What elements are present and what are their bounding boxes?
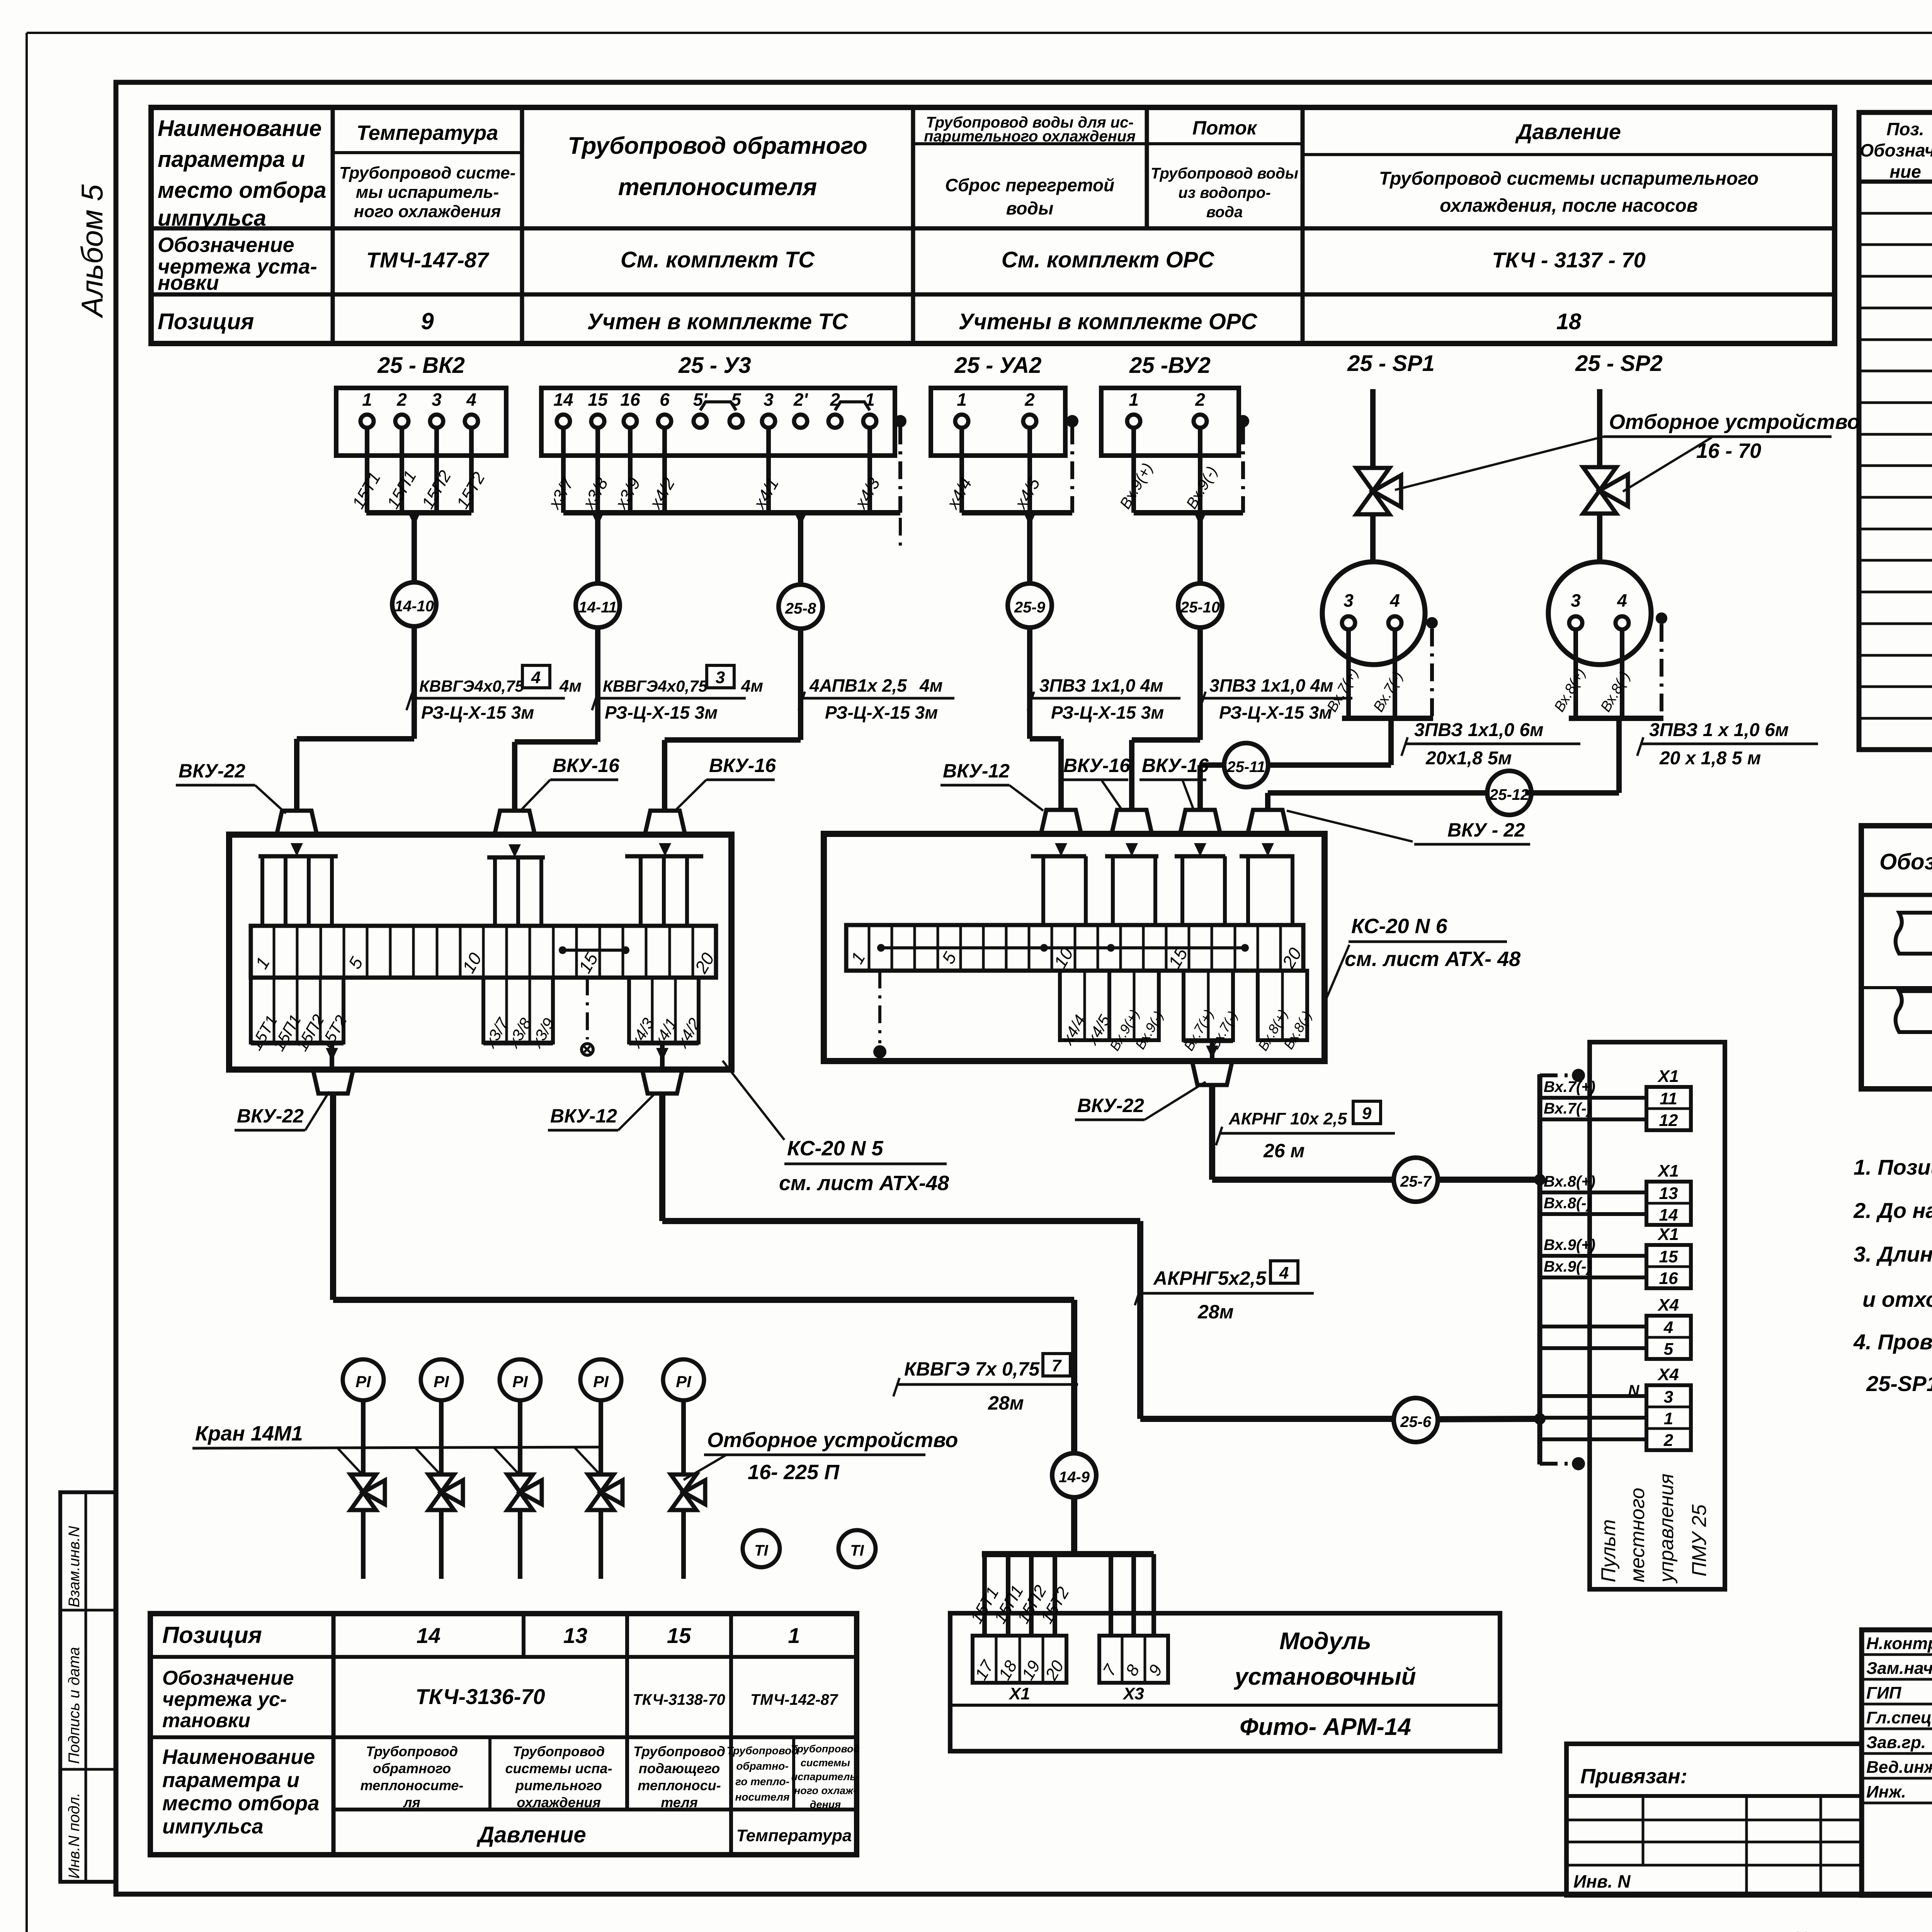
svg-text:системы испа-: системы испа-: [505, 1760, 612, 1776]
svg-text:охлаждения: охлаждения: [517, 1794, 600, 1810]
svg-text:9: 9: [1362, 1104, 1372, 1123]
instrument circle 25-12: [1487, 771, 1531, 815]
svg-text:КВВГЭ 7х 0,75: КВВГЭ 7х 0,75: [904, 1358, 1040, 1380]
KC-20 N6 top glands: [1041, 810, 1081, 834]
svg-text:ВКУ-22: ВКУ-22: [237, 1105, 304, 1127]
svg-text:4м: 4м: [741, 677, 763, 696]
KC-20 N5 terminal strip: [251, 926, 716, 978]
module X3 terminal cells: [1099, 1636, 1168, 1683]
KC-20 N6 bottom label cells х4/4 х4/5: [1060, 971, 1109, 1040]
svg-text:26 м: 26 м: [1263, 1140, 1305, 1162]
svg-text:16: 16: [1659, 1269, 1678, 1288]
instrument circle 14-11: [576, 583, 620, 628]
svg-text:ВКУ-22: ВКУ-22: [179, 760, 245, 782]
svg-text:7: 7: [1052, 1356, 1062, 1375]
module feeder bus: [982, 1551, 1154, 1557]
svg-text:место отбора: место отбора: [162, 1792, 319, 1815]
svg-text:чертежа ус-: чертежа ус-: [162, 1688, 287, 1711]
KC-20 N6 bottom label cells Вх.8: [1258, 971, 1307, 1040]
cable label АКРНГ5х2,5 4 28м: [1138, 1292, 1314, 1295]
cable label 3ПВЗ 1х1,0 4м (right): [1202, 697, 1352, 700]
svg-text:18: 18: [1556, 309, 1582, 334]
svg-text:теплоноси-: теплоноси-: [638, 1777, 721, 1793]
svg-text:2: 2: [1195, 389, 1205, 410]
terminal box 25-УА2 earth dot: [1066, 415, 1078, 427]
instrument circle 25-9: [1008, 583, 1052, 628]
svg-text:3ПВЗ 1 х 1,0 6м: 3ПВЗ 1 х 1,0 6м: [1649, 720, 1789, 740]
svg-text:из водопро-: из водопро-: [1178, 184, 1270, 201]
svg-text:ТМЧ-147-87: ТМЧ-147-87: [366, 248, 490, 272]
svg-text:обратно-: обратно-: [736, 1760, 788, 1772]
svg-text:см. лист АТХ-48: см. лист АТХ-48: [779, 1172, 949, 1195]
svg-text:Зам.нач.: Зам.нач.: [1866, 1659, 1932, 1678]
module X1 terminal cells: [973, 1636, 1066, 1683]
svg-text:ля: ля: [403, 1794, 420, 1810]
PMU earth bus: [1537, 1074, 1543, 1464]
svg-text:PI: PI: [434, 1372, 449, 1391]
svg-text:Кран 14М1: Кран 14М1: [195, 1422, 303, 1445]
svg-text:Поток: Поток: [1192, 117, 1258, 139]
wire run SP1 to gland via 25-11: [1268, 762, 1391, 768]
svg-text:параметра и: параметра и: [158, 147, 305, 172]
svg-text:4м: 4м: [919, 675, 943, 696]
KC-20 N6 internal top bars: [1031, 854, 1086, 859]
cable run 25-8 to KC-20 N5: [798, 629, 803, 740]
TI gauge circles: [743, 1530, 780, 1567]
svg-text:тановки: тановки: [162, 1709, 250, 1732]
cable run 14-11 to KC-20 N5: [595, 628, 600, 742]
module wires to X3: [1109, 1554, 1113, 1636]
terminal box 25-ВУ2 earth dot: [1237, 415, 1249, 427]
KC-20 N6 strip bus with taps: [881, 946, 1245, 949]
cable label 4АПВ1х2,5 4м: [802, 697, 954, 700]
svg-text:Привязан:: Привязан:: [1580, 1765, 1687, 1788]
KC-20 N5 bottom glands: [313, 1070, 353, 1094]
cable run 25-10 to KC-20 N6: [1197, 628, 1203, 740]
svg-text:Обозначение: Обозначение: [158, 233, 294, 257]
svg-text:2. До нарезки кабеля длины: 2. До нарезки кабеля длины трасс уточнит…: [1853, 1198, 1932, 1223]
svg-text:PI: PI: [593, 1372, 609, 1391]
svg-text:теплоносителя: теплоносителя: [618, 174, 817, 201]
svg-text:3: 3: [764, 389, 774, 410]
svg-text:обратного: обратного: [373, 1760, 451, 1776]
binding box Привязан: [1566, 1744, 1862, 1895]
svg-text:13: 13: [1659, 1184, 1678, 1203]
svg-text:см. лист АТХ- 48: см. лист АТХ- 48: [1345, 947, 1520, 971]
svg-text:Вх.7(+): Вх.7(+): [1544, 1078, 1595, 1095]
svg-text:2: 2: [1024, 389, 1035, 410]
svg-text:20х1,8 5м: 20х1,8 5м: [1425, 748, 1512, 769]
svg-text:импульса: импульса: [162, 1815, 264, 1838]
wire to instrument 25-9: [1024, 513, 1036, 526]
cable run 25-9 to KC-20 N6: [1027, 628, 1032, 739]
svg-text:16 - 70: 16 - 70: [1696, 439, 1761, 463]
wire to instrument 25-8: [794, 513, 807, 526]
svg-text:парительного охлаждения: парительного охлаждения: [924, 128, 1136, 145]
selector valve 25-SP1: [1356, 468, 1389, 514]
svg-text:PI: PI: [355, 1372, 371, 1391]
svg-text:Копировал Кухтинова: Копировал Кухтинова: [1793, 1927, 1932, 1932]
svg-text:установочный: установочный: [1234, 1663, 1416, 1690]
svg-text:28м: 28м: [1197, 1301, 1234, 1323]
svg-text:Вх.9(+): Вх.9(+): [1544, 1236, 1595, 1253]
KC-20 N6 earth dash-dot: [878, 971, 881, 1043]
instrument circle 14-10: [392, 582, 436, 626]
svg-text:Трубопровод систе-: Трубопровод систе-: [339, 163, 516, 182]
svg-text:25 - SP1: 25 - SP1: [1347, 351, 1435, 376]
svg-text:4: 4: [466, 389, 476, 410]
wires 25-УА2 to bus: [959, 428, 964, 513]
svg-text:Трубопровод системы испарит: Трубопровод системы испарительного: [1379, 168, 1759, 189]
svg-text:5: 5: [1664, 1340, 1673, 1359]
svg-text:5': 5': [693, 389, 708, 410]
svg-text:25 - У3: 25 - У3: [678, 353, 751, 378]
terminal box 25-У3: [541, 388, 895, 456]
svg-text:охлаждения, после насосов: охлаждения, после насосов: [1440, 196, 1698, 216]
instrument circle 14-9: [1052, 1453, 1096, 1497]
svg-text:12: 12: [1659, 1111, 1678, 1130]
jumper 5'-5: [700, 402, 736, 410]
KC-20 N6 bottom label cells Вх.9: [1109, 971, 1159, 1040]
callout КС-20 N5: [723, 1061, 784, 1140]
wires 25-У3 to bus: [561, 428, 566, 513]
KC-20 N6 terminal strip: [846, 925, 1303, 971]
svg-text:28м: 28м: [988, 1392, 1024, 1414]
svg-text:РЗ-Ц-Х-15 3м: РЗ-Ц-Х-15 3м: [1219, 702, 1332, 723]
svg-text:Трубопровод: Трубопровод: [791, 1743, 860, 1755]
svg-text:Фито- АРМ-14: Фито- АРМ-14: [1240, 1714, 1411, 1740]
svg-text:РЗ-Ц-Х-15 3м: РЗ-Ц-Х-15 3м: [605, 702, 718, 723]
mounting module box Фито-АРМ-14: [950, 1613, 1500, 1751]
PI gauge circles: [343, 1359, 384, 1400]
svg-text:ВКУ-12: ВКУ-12: [550, 1105, 617, 1127]
svg-text:25 -ВУ2: 25 -ВУ2: [1129, 353, 1211, 378]
legend table: [1861, 826, 1932, 1089]
svg-text:ВКУ-16: ВКУ-16: [1063, 755, 1131, 776]
KC-20 N5 strip jumper 14-16: [563, 949, 626, 952]
svg-text:дения: дения: [810, 1799, 841, 1810]
title block outline: [1862, 1630, 1932, 1895]
svg-text:Пульт: Пульт: [1597, 1519, 1620, 1582]
KC-20 N5 earth dash-dot to ground: [586, 978, 589, 1039]
svg-text:14-10: 14-10: [395, 598, 434, 615]
svg-text:Взам.инв.N: Взам.инв.N: [66, 1526, 83, 1607]
svg-text:Гл.спец.: Гл.спец.: [1866, 1708, 1932, 1727]
svg-text:Х1: Х1: [1657, 1162, 1679, 1180]
svg-text:15: 15: [667, 1623, 691, 1648]
svg-text:14-11: 14-11: [578, 599, 617, 616]
svg-text:ТКЧ - 3137 - 70: ТКЧ - 3137 - 70: [1492, 248, 1645, 272]
svg-text:25 - SP2: 25 - SP2: [1575, 351, 1663, 376]
svg-text:Трубопровод: Трубопровод: [366, 1743, 458, 1759]
svg-text:ВКУ-16: ВКУ-16: [553, 755, 620, 776]
svg-text:15: 15: [1659, 1247, 1678, 1266]
svg-text:Обозначе-: Обозначе-: [1860, 140, 1932, 160]
svg-text:14: 14: [417, 1623, 440, 1648]
cable label 3ПВЗ 1х1,0 6м (SP2): [1640, 743, 1818, 745]
svg-text:КВВГЭ4х0,75: КВВГЭ4х0,75: [603, 677, 708, 695]
svg-text:КС-20 N 6: КС-20 N 6: [1351, 915, 1448, 938]
svg-text:Инв. N: Инв. N: [1573, 1871, 1631, 1891]
svg-text:1: 1: [788, 1623, 800, 1648]
svg-text:16: 16: [620, 389, 640, 410]
junction box КС-20 N6: [824, 834, 1325, 1061]
legend symbol 2: grounding conductor: [1896, 991, 1932, 1032]
svg-text:теплоносите-: теплоносите-: [361, 1777, 464, 1793]
svg-text:3: 3: [716, 668, 725, 687]
svg-text:Обозначение: Обозначение: [162, 1667, 294, 1689]
svg-text:25-10: 25-10: [1180, 599, 1220, 616]
local control panel ПМУ 25 box: [1590, 1042, 1725, 1589]
svg-text:Инж.: Инж.: [1866, 1782, 1906, 1801]
wire run SP2 to gland via 25-12: [1525, 790, 1619, 796]
svg-text:11: 11: [1660, 1089, 1677, 1108]
svg-text:АКРНГ5х2,5: АКРНГ5х2,5: [1153, 1267, 1267, 1289]
svg-text:25-9: 25-9: [1014, 599, 1046, 616]
instrument circle 25-6: [1394, 1398, 1438, 1442]
svg-text:25-11: 25-11: [1226, 759, 1265, 776]
svg-text:1: 1: [1664, 1409, 1673, 1428]
wire to instrument 14-10: [408, 513, 420, 526]
svg-text:См. комплект ОРС: См. комплект ОРС: [1002, 247, 1215, 272]
svg-text:новки: новки: [158, 271, 219, 294]
parameters table: [151, 107, 1835, 344]
cable run KC-20 N6 ВКУ-22 to 25-7: [1209, 1086, 1215, 1180]
svg-text:Модуль: Модуль: [1279, 1628, 1371, 1655]
terminal box 25-УА2: [931, 388, 1065, 456]
svg-text:3: 3: [1344, 590, 1354, 611]
svg-text:Инв.N подл.: Инв.N подл.: [66, 1793, 83, 1879]
svg-text:рительного: рительного: [515, 1777, 602, 1793]
svg-text:РЗ-Ц-Х-15 3м: РЗ-Ц-Х-15 3м: [1051, 702, 1164, 723]
svg-text:подающего: подающего: [639, 1760, 720, 1776]
legend symbol 1: cable core used as protective conductor: [1896, 913, 1932, 954]
cable label КВВГЭ4х0,75 3 4м: [595, 697, 746, 700]
svg-text:1: 1: [1129, 389, 1139, 410]
svg-text:14: 14: [1659, 1206, 1678, 1225]
svg-text:6: 6: [660, 389, 670, 410]
svg-text:ВКУ-16: ВКУ-16: [1142, 755, 1209, 776]
svg-text:4м: 4м: [559, 677, 582, 696]
svg-text:PI: PI: [512, 1372, 528, 1391]
svg-text:испаритель-: испаритель-: [791, 1771, 860, 1782]
wire to instrument 14-11: [592, 513, 604, 526]
svg-text:ного охлаж-: ного охлаж-: [794, 1785, 857, 1796]
svg-text:РЗ-Ц-Х-15 3м: РЗ-Ц-Х-15 3м: [421, 702, 534, 723]
wires 25-ВУ2 to bus: [1131, 428, 1136, 513]
svg-text:параметра и: параметра и: [162, 1769, 299, 1792]
svg-text:4: 4: [1663, 1318, 1673, 1337]
KC-20 N5 internal top bars: [259, 854, 338, 859]
wire 25-SP2 down to 25-12: [1616, 718, 1622, 793]
svg-text:1: 1: [957, 389, 967, 410]
svg-text:25-8: 25-8: [785, 600, 816, 617]
KC-20 N5 bottom label cells х3/7..х3/9: [483, 978, 553, 1043]
svg-text:Сброс перегретой: Сброс перегретой: [945, 175, 1114, 195]
junction box КС-20 N5: [229, 835, 731, 1070]
svg-text:Отборное устройство: Отборное устройство: [707, 1429, 958, 1452]
wire 25-SP1 down to 25-11: [1388, 718, 1394, 765]
svg-text:3: 3: [1571, 590, 1581, 611]
svg-text:Х1: Х1: [1008, 1684, 1030, 1703]
svg-text:15: 15: [588, 389, 608, 410]
svg-text:Х4: Х4: [1657, 1365, 1679, 1384]
manometer 25-SP2 body: [1548, 562, 1651, 665]
svg-text:Х3: Х3: [1122, 1684, 1144, 1703]
svg-text:25-12: 25-12: [1489, 786, 1529, 803]
svg-text:20 х 1,8 5 м: 20 х 1,8 5 м: [1659, 748, 1761, 769]
svg-text:25-6: 25-6: [1400, 1413, 1432, 1430]
impulse pipe 25-SP2: [1597, 389, 1602, 467]
svg-text:Вх.8(-): Вх.8(-): [1544, 1195, 1592, 1212]
svg-text:16- 225 П: 16- 225 П: [748, 1461, 840, 1484]
svg-text:КВВГЭ4х0,75: КВВГЭ4х0,75: [419, 677, 524, 695]
wires 25-ВК2 to bus: [365, 428, 369, 513]
instrument circle 25-8: [779, 585, 823, 629]
KC-20 N5 bottom label cells 15Т1..15Т2: [251, 978, 344, 1043]
cable run 14-10 to KC-20 N5: [412, 626, 417, 739]
svg-text:Позиция: Позиция: [162, 1622, 262, 1648]
cable run KC-20 N5 ВКУ-12 to 25-6: [659, 1094, 665, 1221]
svg-text:ВКУ-16: ВКУ-16: [709, 755, 776, 776]
cable label 3ПВЗ 1х1,0 6м (SP1): [1405, 743, 1580, 745]
PI gauge stems: [361, 1400, 366, 1475]
svg-text:Трубопровод обратного: Трубопровод обратного: [568, 133, 867, 159]
svg-text:См. комплект ТС: См. комплект ТС: [621, 247, 815, 272]
svg-text:Подпись и дата: Подпись и дата: [66, 1647, 83, 1764]
callout КС-20 N6: [1325, 945, 1349, 1003]
svg-text:Зав.гр.: Зав.гр.: [1866, 1733, 1926, 1752]
svg-text:Обозначение: Обозначение: [1879, 849, 1932, 874]
svg-text:Вх.7(-): Вх.7(-): [1544, 1100, 1592, 1117]
svg-text:Наименование: Наименование: [162, 1745, 315, 1769]
svg-text:ВКУ-12: ВКУ-12: [943, 760, 1010, 782]
svg-text:25 - ВК2: 25 - ВК2: [377, 353, 465, 378]
svg-text:Х4: Х4: [1657, 1296, 1679, 1315]
terminal box 25-У3 earth dot: [894, 415, 906, 427]
svg-text:КС-20 N 5: КС-20 N 5: [787, 1137, 884, 1160]
svg-text:Трубопровод: Трубопровод: [726, 1745, 798, 1757]
svg-text:1. Позиции приборов и аппара: 1. Позиции приборов и аппаратуры указаны…: [1854, 1155, 1932, 1179]
svg-text:4. Провода при выходе из: 4. Провода при выходе из металлических т…: [1853, 1330, 1932, 1354]
svg-text:Давление: Давление: [476, 1822, 586, 1847]
stamp column boxes: [60, 1492, 116, 1882]
KC-20 N6 right gland label ВКУ-22: [1287, 811, 1413, 842]
svg-text:14: 14: [553, 389, 573, 410]
manometer 25-SP1 body: [1322, 562, 1425, 665]
svg-text:ВКУ - 22: ВКУ - 22: [1447, 819, 1525, 841]
svg-text:ВКУ-22: ВКУ-22: [1077, 1095, 1144, 1116]
svg-text:1: 1: [362, 389, 372, 410]
svg-text:Вх.9(-): Вх.9(-): [1544, 1258, 1592, 1275]
svg-text:Температура: Температура: [736, 1826, 852, 1845]
instrument circle 25-11: [1224, 743, 1268, 787]
manual valves Кран 14М1: [350, 1475, 376, 1510]
svg-text:РЗ-Ц-Х-15 3м: РЗ-Ц-Х-15 3м: [825, 702, 938, 723]
svg-text:3ПВЗ 1х1,0 4м: 3ПВЗ 1х1,0 4м: [1039, 675, 1163, 696]
svg-text:Вх.8(+): Вх.8(+): [1544, 1173, 1595, 1190]
svg-text:14-9: 14-9: [1059, 1469, 1090, 1486]
svg-text:2: 2: [396, 389, 407, 410]
svg-text:3: 3: [432, 389, 442, 410]
cable label 3ПВЗ 1х1,0 4м (left): [1031, 697, 1180, 700]
svg-text:ТМЧ-142-87: ТМЧ-142-87: [750, 1691, 838, 1708]
svg-text:и отходы согласно письму Г: и отходы согласно письму Госстроя СССР о…: [1862, 1287, 1932, 1311]
svg-text:2: 2: [1663, 1431, 1673, 1450]
svg-text:4: 4: [1279, 1264, 1289, 1282]
parts table: [1859, 112, 1932, 750]
svg-text:ТКЧ-3136-70: ТКЧ-3136-70: [415, 1684, 545, 1709]
svg-text:мы испаритель-: мы испаритель-: [356, 183, 499, 202]
instrument circle 25-10: [1178, 583, 1222, 628]
svg-text:воды: воды: [1006, 198, 1053, 218]
svg-text:ГИП: ГИП: [1866, 1684, 1902, 1702]
svg-text:4: 4: [1617, 590, 1627, 611]
junction dot wire 25-6 at bus: [1534, 1413, 1546, 1425]
PMU wires from bus to cells: [1540, 1096, 1646, 1100]
svg-text:носителя: носителя: [735, 1791, 789, 1803]
svg-text:25 - УА2: 25 - УА2: [954, 353, 1041, 378]
svg-text:25-SP1, 25-SP2 проложить в: 25-SP1, 25-SP2 проложить в металлорукаве…: [1866, 1371, 1932, 1396]
svg-text:Х1: Х1: [1657, 1225, 1679, 1244]
terminal box 25-ВУ2: [1101, 388, 1239, 456]
cable label КВВГЭ4х0,75 4 4м: [410, 697, 565, 700]
svg-text:Альбом 5: Альбом 5: [75, 184, 109, 318]
wire to instrument 25-10: [1194, 513, 1206, 526]
svg-text:PI: PI: [676, 1372, 692, 1391]
KC-20 N5 top glands: [277, 811, 317, 835]
wires from 25-SP2 pins: [1573, 629, 1578, 718]
cable run KC-20 N5 ВКУ-22 to module 14-9: [330, 1094, 336, 1300]
svg-text:4АПВ1х 2,5: 4АПВ1х 2,5: [809, 675, 907, 696]
svg-text:го тепло-: го тепло-: [735, 1776, 789, 1787]
svg-text:Трубопровод: Трубопровод: [513, 1743, 605, 1759]
instrument circle 25-7: [1394, 1158, 1438, 1202]
svg-text:ПМУ 25: ПМУ 25: [1688, 1504, 1711, 1577]
svg-text:Позиция: Позиция: [158, 309, 254, 334]
selector valve 25-SP2: [1583, 467, 1616, 514]
svg-text:управления: управления: [1655, 1474, 1678, 1583]
KC-20 N6 bottom gland: [1192, 1061, 1232, 1085]
svg-text:9: 9: [421, 308, 434, 334]
svg-text:системы: системы: [801, 1757, 850, 1769]
KC-20 N5 bottom label cells х4/3 х4/1 х4/2: [629, 978, 699, 1043]
svg-text:Температура: Температура: [357, 121, 498, 145]
svg-text:3. Длины кабелей даны с уч: 3. Длины кабелей даны с учетом 6 % надба…: [1854, 1242, 1932, 1266]
svg-text:Трубопровод воды: Трубопровод воды: [1151, 165, 1298, 182]
svg-text:местного: местного: [1626, 1488, 1649, 1582]
jumper 2'-2: [835, 402, 870, 410]
terminal box 25-ВК2: [336, 388, 506, 456]
outer thin border: [27, 32, 1932, 34]
svg-text:13: 13: [563, 1623, 587, 1648]
KC-20 N6 bottom label cells Вх.7: [1184, 971, 1233, 1040]
svg-text:Трубопровод: Трубопровод: [633, 1743, 725, 1759]
svg-text:Учтены в комплекте ОРС: Учтены в комплекте ОРС: [959, 309, 1258, 334]
svg-text:Н.контр.: Н.контр.: [1866, 1634, 1932, 1653]
svg-text:вода: вода: [1206, 204, 1243, 221]
svg-text:ТКЧ-3138-70: ТКЧ-3138-70: [633, 1691, 725, 1708]
svg-text:3ПВЗ 1х1,0 6м: 3ПВЗ 1х1,0 6м: [1414, 720, 1544, 740]
svg-text:3ПВЗ 1х1,0 4м: 3ПВЗ 1х1,0 4м: [1209, 675, 1333, 696]
impulse pipe 25-SP1: [1370, 389, 1376, 468]
svg-text:Учтен в комплекте ТС: Учтен в комплекте ТС: [587, 309, 848, 334]
svg-text:Отборное устройство: Отборное устройство: [1609, 410, 1860, 434]
svg-text:2': 2': [793, 389, 809, 410]
svg-text:ние: ние: [1889, 162, 1921, 182]
wires from 25-SP1 pins: [1346, 629, 1351, 718]
svg-text:3: 3: [1664, 1388, 1673, 1406]
